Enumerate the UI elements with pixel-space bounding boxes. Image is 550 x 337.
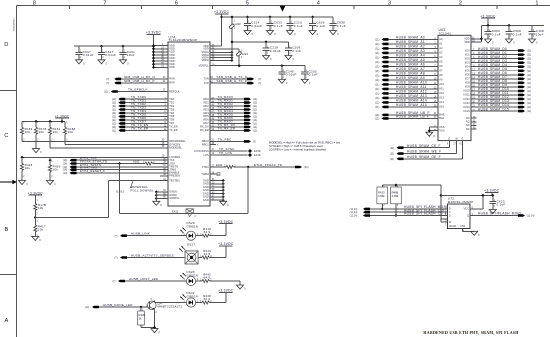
svg-text:SFB_USB_H_RX_P: SFB_USB_H_RX_P [124,79,155,83]
svg-text:(11): (11) [375,61,379,64]
svg-text:0.01uF: 0.01uF [83,53,94,57]
svg-text:(11): (11) [527,98,531,101]
svg-text:I/O15: I/O15 [463,109,470,113]
svg-text:I/O10: I/O10 [463,89,470,93]
resistor R181 [49,121,51,127]
svg-text:SYNC/PASS: SYNC/PASS [194,149,209,153]
inductor L221 ferrite bead [238,49,240,66]
svg-text:I/O3: I/O3 [465,60,470,64]
svg-text:0.1uF: 0.1uF [337,24,346,28]
svg-text:RD1: RD1 [203,100,209,104]
svg-text:NC: NC [466,120,470,124]
svg-text:(11): (11) [527,106,531,109]
svg-text:4.99k: 4.99k [392,194,399,198]
svg-text:TESTEN: TESTEN [169,179,179,183]
svg-text:10k: 10k [38,206,44,210]
svg-text:(7): (7) [106,78,109,81]
svg-text:TD3: TD3 [169,107,174,111]
left border off-page arrow into sheet [0,181,13,183]
svg-text:MODESEL: MODESEL [169,146,182,150]
svg-text:E411: E411 [172,210,179,214]
U7A VDD pin stubs left [154,45,169,47]
resistor R429 [198,257,202,259]
svg-text:(12): (12) [85,306,90,309]
svg-text:HUSB_SRAM_D15: HUSB_SRAM_D15 [478,107,509,111]
U63 NC pins [471,117,477,119]
svg-text:SFB_USB_H_TX_P: SFB_USB_H_TX_P [217,79,247,83]
svg-text:VSS: VSS [439,129,444,133]
wire RBCWMODE net from pull-up [22,140,168,142]
svg-text:HUSB_SRAM_WE_F: HUSB_SRAM_WE_F [407,150,441,154]
wire pull-up rail to +3.3V [382,184,441,186]
svg-text:TX_ER: TX_ER [169,128,177,132]
capacitor C633 [269,17,271,23]
svg-text:E139: E139 [254,153,261,157]
svg-text:VSS: VSS [460,224,465,228]
svg-text:TD4: TD4 [169,111,174,115]
svg-text:+3.3VDC: +3.3VDC [218,242,234,246]
resistor R17B [34,195,36,200]
capacitor C209 [287,42,289,48]
svg-text:HUSB_LINK: HUSB_LINK [131,232,150,236]
svg-text:VDD: VDD [203,47,209,51]
svg-text:VDDA: VDDA [201,58,208,62]
svg-text:(11): (11) [527,50,531,53]
svg-text:RBC1: RBC1 [202,142,209,146]
svg-text:NC: NC [466,123,470,127]
svg-text:JTDI: JTDI [169,161,175,165]
junction JTDI loop [118,162,121,165]
svg-text:(7): (7) [258,82,261,85]
power symbol +3.3VDC DS26 [225,224,227,236]
svg-text:10k: 10k [53,130,59,134]
capacitor C218 [265,42,267,48]
junction [121,45,124,48]
svg-text:(11): (11) [375,92,379,95]
svg-text:(11): (11) [527,110,531,113]
svg-text:BHE: BHE [439,113,445,117]
svg-text:(11): (11) [527,90,531,93]
svg-text:M25P40-VMN6P: M25P40-VMN6P [448,200,474,204]
wire Q4 emitter to ground [154,310,156,328]
svg-text:I/O13: I/O13 [463,101,470,105]
svg-text:10k: 10k [25,130,31,134]
svg-text:A12: A12 [439,91,444,95]
svg-text:(7): (7) [114,235,117,238]
svg-text:PRESEN: PRESEN [169,174,180,178]
svg-text:HUSB_SRAM_A12: HUSB_SRAM_A12 [396,90,427,94]
svg-text:(14): (14) [63,172,68,175]
svg-text:HUSB_DONE_LED: HUSB_DONE_LED [103,303,133,307]
svg-text:+3.3VDC: +3.3VDC [146,31,162,35]
svg-text:A13: A13 [439,96,444,100]
svg-text:HUSB_SRAM_CE_F: HUSB_SRAM_CE_F [407,144,441,148]
wire +3.3VDC to VDD pins rail [153,35,155,68]
svg-text:A4: A4 [439,55,443,59]
svg-text:0.1uF: 0.1uF [294,24,303,28]
svg-text:A: A [4,318,8,324]
svg-text:0.1uF: 0.1uF [274,24,283,28]
resistor R183 [21,121,23,127]
svg-text:7: 7 [103,1,106,7]
svg-text:10k: 10k [25,166,31,170]
svg-text:TD1: TD1 [169,100,174,104]
resistor R418 [196,235,202,237]
svg-text:GNDPLL: GNDPLL [169,196,180,200]
svg-text:0.1uF: 0.1uF [497,203,506,207]
junction pull-up R488 on CS [394,214,397,217]
svg-text:(11): (11) [104,91,108,94]
svg-text:(11): (11) [375,83,379,86]
svg-text:10k: 10k [53,167,59,171]
svg-text:I/O1: I/O1 [465,52,470,56]
op chip U7A TLK1201 ethernet PHY body [168,42,210,206]
ground below R178 [33,149,40,153]
svg-text:TN_RX_ER: TN_RX_ER [218,127,236,131]
svg-text:L220: L220 [235,22,242,26]
svg-text:0.01uF: 0.01uF [251,24,262,28]
power symbol +3.3VDC DS32 [225,293,227,303]
svg-text:HUSB_SRAM_A6: HUSB_SRAM_A6 [396,63,425,67]
svg-text:6: 6 [175,1,178,7]
svg-text:10k: 10k [38,228,44,232]
svg-text:RX_ER: RX_ER [200,128,209,132]
svg-text:A10: A10 [439,82,444,86]
svg-text:+3.3VDC: +3.3VDC [218,220,234,224]
svg-text:64.9: 64.9 [204,275,211,279]
svg-text:RXN: RXN [169,77,175,81]
svg-text:8: 8 [33,1,36,7]
svg-text:HUSB_SPI_FLASH_MISO: HUSB_SPI_FLASH_MISO [478,212,521,216]
svg-text:TLK1201B/WNOP: TLK1201B/WNOP [169,38,198,42]
U7A GNDA pins to ground [156,191,168,193]
svg-text:A15: A15 [439,105,444,109]
power rail SRAM caps [481,24,544,26]
svg-text:TD6: TD6 [169,118,174,122]
svg-text:(11): (11) [527,78,531,81]
svg-text:E162: E162 [216,163,223,167]
capacitor C627 [101,46,103,52]
svg-text:A3: A3 [439,51,443,55]
resistor R188 [64,121,66,127]
svg-text:HUSB_SRAM_A1: HUSB_SRAM_A1 [396,40,425,44]
svg-text:10uF: 10uF [127,53,135,57]
svg-text:I/O9: I/O9 [465,85,470,89]
svg-text:TD0: TD0 [169,97,174,101]
svg-text:HUSB_SRAM_OE_F: HUSB_SRAM_OE_F [407,155,441,159]
svg-text:2: 2 [459,1,462,7]
wire TESTEN to divider [108,180,168,182]
svg-text:5D9Q447A-2: 5D9Q447A-2 [13,17,16,31]
capacitor C231 [122,46,124,52]
svg-text:E163: E163 [117,190,125,194]
svg-text:VDD: VDD [464,40,470,44]
svg-text:A0: A0 [439,37,443,41]
svg-text:RD7: RD7 [203,121,209,125]
svg-text:HUSB_SRAM_A2: HUSB_SRAM_A2 [396,45,425,49]
svg-text:3: 3 [388,1,391,7]
svg-text:64.9: 64.9 [204,252,211,256]
svg-text:HUSB_ACTIVITY_SERDES: HUSB_ACTIVITY_SERDES [131,253,174,257]
svg-text:TXP: TXP [204,81,209,85]
capacitor C214 [247,17,249,23]
svg-text:I/O6: I/O6 [465,73,470,77]
pin PRESEN stub [160,175,168,177]
ground below R428 [19,181,26,185]
svg-text:TD5: TD5 [169,114,174,118]
svg-text:64.9: 64.9 [204,230,211,234]
svg-text:(11): (11) [527,82,531,85]
svg-text:+3.3VDC: +3.3VDC [480,14,496,18]
svg-text:HUSB_SRAM_A10: HUSB_SRAM_A10 [396,81,427,85]
svg-text:0.1uF: 0.1uF [292,49,301,53]
svg-text:(11,14): (11,14) [527,215,535,218]
svg-text:L221: L221 [242,52,249,56]
svg-text:(11): (11) [253,129,257,132]
svg-text:E138: E138 [254,149,261,153]
svg-text:TN_TX_ER: TN_TX_ER [131,127,149,131]
ground Q4 emitter [151,329,158,333]
svg-text:I/O5: I/O5 [465,69,470,73]
svg-text:A14: A14 [439,100,444,104]
resistor R445 base-emitter boxed [139,305,142,308]
svg-text:HUSB_SPI_FLASH_CS_F: HUSB_SPI_FLASH_CS_F [404,212,447,216]
svg-text:HUSB_SRAM_A9: HUSB_SRAM_A9 [396,76,425,80]
svg-text:VDDPLL: VDDPLL [199,64,210,68]
wire Q4 collector to DS32 [153,301,155,303]
svg-text:D: D [4,42,8,48]
top border black down arrow marker [280,6,286,12]
svg-text:A1: A1 [439,42,443,46]
svg-text:10k: 10k [68,130,74,134]
svg-text:A8: A8 [439,73,443,77]
sheet border top line [16,4,550,6]
svg-text:C: C [4,133,8,139]
resistor R178 [35,121,37,127]
svg-text:(7): (7) [253,140,256,143]
junction [507,24,510,27]
junction pull-up R413 on MOSI [381,207,384,210]
svg-text:TD7: TD7 [169,121,174,125]
svg-text:HUSB_SRAM_A8: HUSB_SRAM_A8 [396,72,425,76]
capacitor C660 [487,25,489,31]
svg-text:HUSB_SRAM_A4: HUSB_SRAM_A4 [396,54,425,58]
svg-text:NC: NC [466,127,470,131]
svg-text:HUSB_SRAM_LB_F: HUSB_SRAM_LB_F [396,115,429,119]
ground below R417 [32,236,39,240]
svg-text:TD2: TD2 [169,104,174,108]
svg-text:(7): (7) [258,78,261,81]
svg-text:(11): (11) [375,74,379,77]
svg-text:(11): (11) [375,43,379,46]
svg-text:I/O14: I/O14 [463,105,470,109]
svg-text:(11): (11) [375,56,379,59]
wire LOOPEN net from pull-down [22,156,168,158]
svg-text:DS27: DS27 [187,242,195,246]
svg-text:(7): (7) [106,82,109,85]
junction divider to TESTEN [34,216,37,219]
resistor R417 [34,221,36,225]
svg-text:(11): (11) [375,97,379,100]
svg-text:(11): (11) [527,58,531,61]
svg-text:ETH4_RESET_F: ETH4_RESET_F [80,169,105,173]
capacitor C168 [531,25,533,31]
svg-text:BLE: BLE [439,116,444,120]
svg-text:HUSB_SRAM_A7: HUSB_SRAM_A7 [396,67,425,71]
svg-text:A11: A11 [439,87,444,91]
svg-text:TXN: TXN [204,77,209,81]
svg-text:MMBT2222ALT1: MMBT2222ALT1 [158,305,183,309]
resistor R448 [196,302,202,304]
svg-text:7C1041: 7C1041 [439,31,452,35]
svg-text:10uF: 10uF [536,32,544,36]
svg-text:REFCLK: REFCLK [169,89,180,93]
junction [280,64,283,67]
wire VDDA filter rail vertical [231,42,233,60]
svg-text:I/O2: I/O2 [465,56,470,60]
svg-text:(11): (11) [375,88,379,91]
svg-text:HUSB_SRAM_A3: HUSB_SRAM_A3 [396,49,425,53]
svg-text:(7): (7) [114,257,117,260]
ground U63 VSS [426,132,433,136]
svg-text:HUSB_SRAM_A5: HUSB_SRAM_A5 [396,58,425,62]
svg-text:I/O0: I/O0 [465,48,470,52]
power rail pull-ups [22,120,65,122]
svg-text:Q: Q [467,213,469,217]
svg-text:(11): (11) [527,86,531,89]
top border zone ticks [69,5,71,9]
svg-text:0.1uF: 0.1uF [309,73,318,77]
junction [268,15,271,18]
svg-text:GND: GND [203,198,209,202]
svg-text:(11): (11) [112,129,116,132]
thermal pad E411 of U7A [186,209,193,214]
svg-text:G: G [461,138,463,141]
capacitor C626 [312,17,314,23]
svg-text:(11): (11) [527,94,531,97]
svg-text:(11): (11) [375,79,379,82]
capacitor C637 [78,46,80,52]
svg-text:VDD: VDD [169,65,175,69]
ground at U7A GND [220,201,227,205]
svg-text:HUSB_SRAM_A0: HUSB_SRAM_A0 [396,36,425,40]
svg-text:RD0: RD0 [203,97,209,101]
sheet border left line [15,5,17,337]
resistor R428 pull-down LOOPEN [20,156,23,159]
svg-text:RX_DV: RX_DV [200,125,209,129]
wire JTDI-JTDO loop below chip [247,167,249,213]
svg-text:(11): (11) [375,117,379,120]
svg-text:HUSB_SRAM_A14: HUSB_SRAM_A14 [396,99,427,103]
junction [100,45,103,48]
svg-text:+3.3VDC: +3.3VDC [54,114,70,118]
svg-text:(12): (12) [304,166,309,169]
junction [265,40,268,43]
left border zone ticks [0,90,16,92]
svg-text:(11): (11) [375,65,379,68]
junction [311,15,314,18]
svg-text:HUSB_SRAM_A11: HUSB_SRAM_A11 [396,85,427,89]
svg-text:+3.3VDC: +3.3VDC [218,289,234,293]
svg-text:4: 4 [317,1,320,7]
svg-text:5: 5 [246,1,249,7]
svg-text:+3.3VDC: +3.3VDC [28,191,44,195]
wire divider to TESTEN corner [34,214,36,220]
svg-text:A9: A9 [439,78,443,82]
svg-text:I/O11: I/O11 [464,93,471,97]
svg-text:RD5: RD5 [203,114,209,118]
svg-text:HUSB_SRAM_A13: HUSB_SRAM_A13 [396,94,427,98]
ground at U7A GNDA [153,201,160,205]
ground below R426 [47,181,54,185]
node E163 stub with note [131,181,133,187]
svg-text:+3.3VDC: +3.3VDC [484,189,500,193]
svg-text:TP_LOS: TP_LOS [219,151,232,155]
svg-text:TN_EFBCLK: TN_EFBCLK [128,87,148,91]
U7A GND pins to ground [210,180,223,182]
svg-text:(11): (11) [375,101,379,104]
svg-text:I/O4: I/O4 [465,65,470,69]
svg-text:THRM: THRM [201,172,209,176]
svg-text:VCC: VCC [464,207,470,211]
resistor R488 pull-up boxed [395,185,397,187]
svg-text:RD6: RD6 [203,118,209,122]
svg-text:10k: 10k [39,130,45,134]
svg-text:(11): (11) [527,62,531,65]
svg-text:I/O12: I/O12 [463,97,470,101]
svg-text:0.01uF: 0.01uF [105,53,116,57]
svg-text:I/O7: I/O7 [465,77,470,81]
svg-text:S: S [449,213,451,217]
power rail row1 [222,16,333,18]
junction JTDO loop [247,165,250,168]
svg-text:(11): (11) [527,102,531,105]
svg-text:(11): (11) [390,147,394,150]
svg-text:4.99k: 4.99k [378,194,385,198]
capacitor C623 [492,195,494,201]
svg-text:(11,14): (11,14) [350,215,358,218]
junction [288,15,291,18]
memory chip U63 7C1041 SRAM body [438,35,471,140]
svg-text:I/O8: I/O8 [465,81,470,85]
junction [246,15,249,18]
svg-text:(11): (11) [375,70,379,73]
transistor Q4 MMBT2222ALT1 [148,301,157,310]
svg-text:A162: A162 [133,159,140,163]
power rail row2 VDDA [232,41,288,43]
wire SYNCEN net from pull-up [65,144,168,146]
wire MODESEL net from pull-up [50,147,168,149]
ground DS28 row [237,285,244,289]
svg-text:B: B [4,227,8,233]
svg-text:(11): (11) [390,158,394,161]
ground below C623 [489,210,496,214]
svg-text:(11): (11) [375,52,379,55]
resistor R413 pull-up boxed [381,185,383,187]
svg-text:(11): (11) [375,38,379,41]
svg-text:(7): (7) [112,280,115,283]
svg-text:HARDENED USB ETH PHY, SRAM, SP: HARDENED USB ETH PHY, SRAM, SPI FLASH [423,330,518,335]
power rail +3.3VDC top-left to U7A VDD [74,45,154,47]
svg-text:HOLD: HOLD [449,224,456,228]
svg-text:(11): (11) [390,153,394,156]
svg-text:(11): (11) [527,54,531,57]
resistor R442 [196,280,202,282]
svg-text:+3.3VDC: +3.3VDC [214,10,230,14]
svg-text:1: 1 [535,1,538,7]
svg-text:RD2: RD2 [203,104,209,108]
power symbol +3.3VDC DS27 [225,246,227,258]
